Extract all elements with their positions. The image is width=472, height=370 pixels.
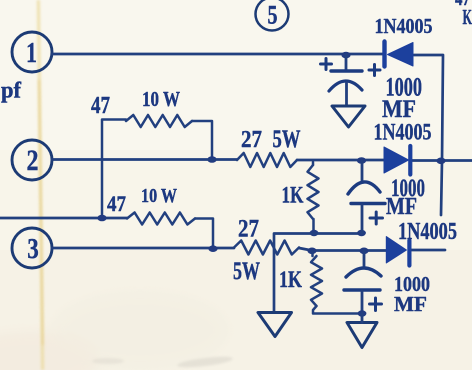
node junction 1K bottom on rail xyxy=(310,230,319,236)
terminal circle 3 xyxy=(12,228,52,268)
svg-text:1: 1 xyxy=(26,37,37,69)
capacitor C2 1000MF: top stub xyxy=(361,161,364,183)
svg-text:MF: MF xyxy=(394,292,427,316)
node junction cap C3 tap xyxy=(359,248,368,255)
svg-text:pf: pf xyxy=(1,78,21,103)
capacitor C2 straight plate xyxy=(351,202,385,205)
node junction row2 at resistor drop xyxy=(207,156,216,163)
diode D2 1N4005 (pointing right) xyxy=(384,147,409,173)
wire row3 upper from left edge xyxy=(0,217,127,220)
node junction right bus row2 xyxy=(436,158,445,165)
svg-text:27: 27 xyxy=(241,127,262,153)
C3 ground stub xyxy=(361,314,364,323)
capacitor C1 curved plate xyxy=(329,81,362,91)
svg-text:5: 5 xyxy=(268,1,278,30)
capacitor C1 plus sign xyxy=(321,59,332,70)
wire row1 from circle 1 to diode D1 xyxy=(52,53,383,56)
capacitor C1 1000MF: stub xyxy=(345,55,348,70)
svg-text:K: K xyxy=(463,5,472,29)
svg-text:27: 27 xyxy=(238,216,259,243)
node junction cap C2 bottom xyxy=(357,230,366,236)
capacitor C3 straight plate xyxy=(344,288,380,291)
node junction cap C2 tap xyxy=(357,157,366,164)
ground under C1 xyxy=(332,106,365,127)
svg-text:1N4005: 1N4005 xyxy=(374,120,432,145)
svg-text:3: 3 xyxy=(27,233,39,265)
resistor 1K (row3 vertical) xyxy=(311,252,314,257)
resistor 27 5W (row2) xyxy=(237,153,297,167)
svg-text:2: 2 xyxy=(27,144,39,177)
node junction row3 at resistor drop xyxy=(208,245,217,252)
diode D3 1N4005 (pointing right) xyxy=(386,237,406,264)
node junction 1K row3 tap xyxy=(307,248,316,255)
terminal circle 1 xyxy=(12,32,52,72)
resistor 47 10W (row3) xyxy=(127,213,195,225)
ground symbol under C3 xyxy=(347,323,377,348)
fold line xyxy=(37,0,44,370)
ground rail row2 xyxy=(274,234,363,313)
capacitor C3 lower stub xyxy=(361,291,364,314)
wire row3 from circle 3 xyxy=(52,247,234,250)
svg-text:1K: 1K xyxy=(279,267,302,292)
capacitor C3 curved plate xyxy=(346,268,381,277)
wire row3 after D3 xyxy=(411,249,445,252)
wire row2 after D2 to right edge xyxy=(412,159,472,162)
capacitor C1 straight plate xyxy=(331,69,362,72)
svg-text:5W: 5W xyxy=(273,126,301,153)
capacitor C1 lower stub xyxy=(345,83,348,106)
capacitor C2 lower stub xyxy=(361,205,364,233)
second plus sign right of C1 xyxy=(369,65,380,76)
svg-text:1K: 1K xyxy=(282,183,304,208)
svg-text:1N4005: 1N4005 xyxy=(375,14,433,38)
capacitor C2 curved plate xyxy=(348,182,380,194)
svg-text:10 W: 10 W xyxy=(141,185,177,207)
svg-text:47: 47 xyxy=(91,93,110,119)
wire row3 to diode D3 xyxy=(299,248,386,251)
node junction on row1 (cap C1 tap) xyxy=(341,52,350,59)
terminal circle 2 xyxy=(12,140,52,180)
capacitor C3 1000MF: top stub xyxy=(363,251,366,268)
resistor 27 5W (row3) xyxy=(234,241,299,255)
terminal circle 5 xyxy=(256,0,289,31)
capacitor C3 plus sign xyxy=(370,298,382,311)
resistor 47 10W (row2): bus corner, leads and zigzag xyxy=(102,120,126,219)
wire row2 from circle 2 xyxy=(52,158,237,161)
node junction C3 bottom / ground xyxy=(358,310,367,316)
wire row2 to diode D2 xyxy=(297,159,384,162)
svg-text:5W: 5W xyxy=(233,258,260,285)
capacitor C2 plus sign xyxy=(370,212,383,224)
svg-text:MF: MF xyxy=(386,194,417,220)
ground symbol left (rail) xyxy=(258,313,292,337)
svg-text:10 W: 10 W xyxy=(142,87,180,111)
wire row1 diode output to right bus, down to row2 xyxy=(414,55,443,215)
node junction bus meets row3 upper xyxy=(97,215,106,222)
diode D1 1N4005 (cathode bar left) xyxy=(382,42,386,67)
svg-text:47: 47 xyxy=(107,191,126,216)
svg-text:1N4005: 1N4005 xyxy=(398,219,457,245)
resistor 1K (row2 vertical) xyxy=(312,162,315,165)
faint scan streaks xyxy=(177,355,234,370)
